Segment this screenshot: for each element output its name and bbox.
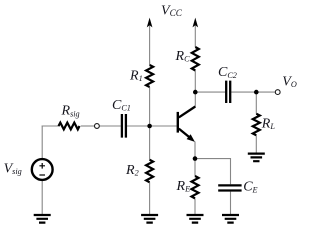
wire: R2 to ground (149, 182, 151, 215)
label CC1 (112, 98, 131, 113)
wire: base node to transistor base (150, 125, 177, 127)
svg-text:RL: RL (261, 116, 276, 131)
svg-text:CC2: CC2 (218, 65, 237, 80)
label CE (243, 180, 257, 195)
wire: input horizontal to Rsig (42, 125, 60, 127)
wire: RC to collector (194, 71, 196, 107)
node: base junction dot (147, 124, 152, 129)
svg-text:VCC: VCC (161, 3, 183, 18)
label CC2 (218, 65, 237, 80)
label R1 (129, 68, 143, 83)
resistor R2 (146, 160, 153, 183)
label RL (261, 116, 276, 131)
ground: Vsig (34, 215, 51, 223)
label VO (282, 74, 297, 89)
VCC supply arrow left (147, 18, 153, 28)
svg-text:CC1: CC1 (112, 98, 131, 113)
wire: collector node to CC2 (195, 91, 225, 93)
capacitor CC2 (226, 81, 230, 103)
wire: RL to ground (255, 135, 257, 153)
node: emitter junction dot (193, 156, 198, 161)
capacitor CC1 (122, 114, 126, 138)
wire: output node to RL (255, 92, 257, 114)
wire: base node to R2 (149, 126, 151, 160)
transistor Q1 (177, 107, 196, 142)
wire: Rsig to input terminal circle (81, 125, 95, 127)
ground: R2 (141, 215, 158, 223)
wire: emitter node to CE branch (195, 159, 231, 185)
wire: emitter vertical (194, 142, 196, 177)
resistor R1 (146, 65, 153, 87)
node: input terminal open circle (95, 124, 100, 129)
wire: CE to ground (230, 192, 232, 215)
label VCC (161, 3, 183, 18)
ground: CE (222, 215, 239, 223)
wire: RE to ground (194, 198, 196, 215)
ground: RE (187, 215, 204, 223)
svg-text:RC: RC (175, 49, 191, 64)
resistor RE (192, 176, 199, 198)
label RE (176, 179, 191, 194)
label Vsig (4, 161, 22, 176)
resistor RC (192, 47, 199, 71)
resistor RL (253, 114, 260, 136)
wire: Vsig top vertical (41, 126, 43, 159)
svg-text:RE: RE (176, 179, 191, 194)
wire: Vsig bottom vertical (41, 180, 43, 215)
capacitor CE (218, 185, 241, 190)
node: collector junction dot (193, 90, 198, 95)
wire: CC2 to output terminal (231, 91, 275, 93)
source Vsig (32, 159, 53, 180)
ground: RL (248, 154, 265, 162)
svg-text:VO: VO (282, 74, 297, 89)
label R2 (125, 163, 139, 178)
wire: VCC left branch to R1 (149, 20, 151, 65)
svg-text:CE: CE (243, 180, 257, 195)
wire: CC1 to base node (127, 125, 150, 127)
svg-text:Vsig: Vsig (4, 161, 22, 176)
label Rsig (61, 104, 80, 119)
label RC (175, 49, 191, 64)
wire: input terminal to CC1 (99, 125, 121, 127)
svg-text:R1: R1 (129, 68, 143, 83)
resistor Rsig (59, 123, 80, 130)
node: output junction dot (254, 90, 259, 95)
svg-text:Rsig: Rsig (61, 104, 80, 119)
wire: R1 to base node (149, 87, 151, 126)
svg-text:R2: R2 (125, 163, 139, 178)
node: VO output terminal open circle (275, 90, 280, 95)
VCC supply arrow right (193, 18, 199, 28)
wire: VCC right branch to RC (194, 20, 196, 47)
